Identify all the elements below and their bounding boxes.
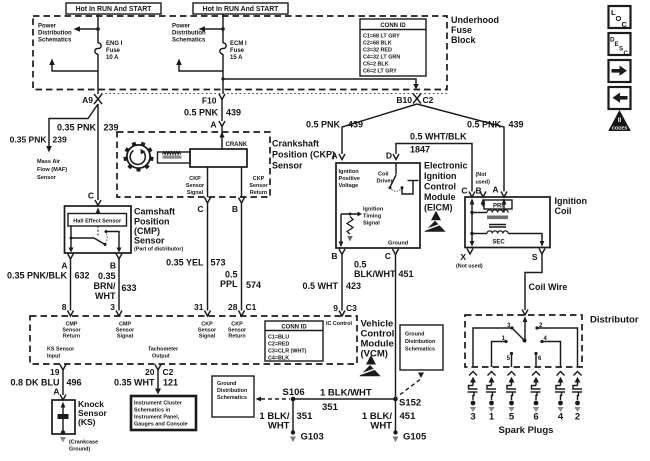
wire: hot feed to ENG I fuse bbox=[97, 14, 99, 43]
spark plug 2 bbox=[572, 372, 582, 423]
svg-text:Power: Power bbox=[38, 24, 57, 30]
pin 31 (VCM) bbox=[194, 302, 210, 316]
wire 0.5 BLK/WHT 451 (EICM C to S152) bbox=[395, 255, 397, 398]
ground G105 bbox=[393, 430, 427, 442]
coil wire (S to distributor) bbox=[525, 254, 542, 310]
pin 8 (VCM) bbox=[62, 302, 74, 316]
label: CKP Sensor Signal (VCM) bbox=[198, 322, 217, 340]
wire 0.35 BRN/WHT 633 (CMP B to VCM pin 3) bbox=[118, 259, 120, 311]
wire 0.5 PNK 439 (B10 to ignition coil A) bbox=[417, 104, 504, 192]
svg-text:Tachometer: Tachometer bbox=[148, 347, 179, 353]
svg-text:6: 6 bbox=[533, 412, 538, 423]
svg-text:573: 573 bbox=[211, 258, 226, 268]
svg-text:1847: 1847 bbox=[410, 145, 430, 155]
ESD logo (EICM) bbox=[424, 211, 445, 232]
EICM internal ground rail bbox=[340, 214, 342, 246]
svg-text:CONN ID: CONN ID bbox=[380, 23, 406, 29]
pickup coil bbox=[158, 152, 191, 164]
svg-text:451: 451 bbox=[399, 269, 414, 279]
distributor cap contact 3 bbox=[473, 323, 514, 367]
svg-text:15 A: 15 A bbox=[230, 55, 243, 61]
fuse ENG I 10A symbol bbox=[95, 43, 101, 54]
svg-text:Block: Block bbox=[451, 35, 477, 45]
svg-text:KS Sensor: KS Sensor bbox=[47, 347, 75, 353]
svg-text:II: II bbox=[618, 118, 622, 124]
terminal C (CMP sensor) bbox=[88, 191, 101, 206]
hall effect sensor box bbox=[68, 214, 127, 227]
svg-text:0.35 YEL: 0.35 YEL bbox=[166, 258, 204, 268]
crankshaft position sensor (CKP) dashed box bbox=[117, 132, 270, 197]
ground distribution schematics box (right) bbox=[400, 325, 443, 370]
svg-text:Mass Air: Mass Air bbox=[37, 159, 61, 165]
label: CMP Sensor Signal (VCM) bbox=[116, 322, 135, 340]
svg-text:C: C bbox=[622, 20, 628, 29]
primary winding PRI bbox=[472, 210, 508, 213]
svg-text:Voltage: Voltage bbox=[339, 183, 359, 189]
label: CKP Sensor Return (inside box) bbox=[249, 176, 268, 196]
svg-text:C2=68 BLK: C2=68 BLK bbox=[363, 41, 392, 47]
svg-text:Distribution: Distribution bbox=[172, 31, 206, 37]
svg-text:351: 351 bbox=[297, 411, 314, 422]
branch wire with up arrow (other circuits, left) bbox=[49, 59, 98, 72]
svg-text:633: 633 bbox=[122, 283, 137, 293]
svg-text:Ignition: Ignition bbox=[363, 207, 384, 213]
spark plug 6 bbox=[531, 372, 541, 423]
svg-text:121: 121 bbox=[163, 378, 178, 388]
ESD logo (VCM) bbox=[359, 355, 380, 376]
svg-text:239: 239 bbox=[104, 123, 119, 133]
distributor cap contact 1 bbox=[492, 336, 508, 367]
svg-text:1 BLK/WHT: 1 BLK/WHT bbox=[320, 388, 372, 399]
svg-text:Schematics: Schematics bbox=[38, 38, 72, 44]
arrow into CMP from terminal C bbox=[96, 207, 101, 213]
node F10 bbox=[202, 94, 225, 106]
spark plug 5 bbox=[506, 372, 516, 423]
svg-text:C: C bbox=[197, 204, 203, 214]
dashed link to S106 with arrow bbox=[256, 397, 291, 402]
svg-text:C1=BLU: C1=BLU bbox=[268, 335, 289, 341]
electronic ignition control module (EICM) box bbox=[336, 163, 420, 248]
wire 0.5 PPL 574 (CKP B to VCM pin 28) bbox=[241, 203, 243, 311]
svg-text:B: B bbox=[476, 186, 482, 196]
svg-text:WHT: WHT bbox=[268, 421, 290, 432]
svg-text:PPL: PPL bbox=[220, 279, 238, 289]
svg-text:Ignition: Ignition bbox=[339, 169, 360, 175]
sidebar icon: next arrow button bbox=[609, 60, 631, 82]
coil A internal lead bbox=[502, 198, 507, 212]
svg-text:(Crankcase: (Crankcase bbox=[69, 440, 98, 446]
svg-text:A: A bbox=[61, 261, 67, 271]
wire 1 BLK/WHT 351 (S106 to S152) bbox=[293, 398, 396, 400]
terminal B (CKP return) bbox=[232, 198, 245, 215]
arrow: power distribution schematics (right) bbox=[199, 26, 224, 32]
svg-text:A: A bbox=[53, 387, 59, 397]
svg-text:Control: Control bbox=[424, 182, 456, 192]
svg-text:C3: C3 bbox=[346, 303, 357, 313]
svg-text:Coil: Coil bbox=[378, 172, 389, 178]
svg-text:S: S bbox=[532, 252, 538, 262]
svg-text:Sensor: Sensor bbox=[37, 175, 57, 181]
svg-text:439: 439 bbox=[509, 120, 524, 130]
ground G103 bbox=[290, 430, 324, 442]
svg-text:C: C bbox=[461, 186, 467, 196]
sidebar icon: DESC button bbox=[609, 33, 631, 57]
sidebar icon: LOC button bbox=[609, 6, 631, 29]
svg-text:Signal: Signal bbox=[199, 334, 216, 340]
terminal C (EICM) bbox=[385, 249, 399, 261]
terminal A (CMP) bbox=[61, 254, 73, 271]
svg-text:BRN/: BRN/ bbox=[94, 281, 116, 291]
wire 1 BLK/WHT 451 (S152 to G105) bbox=[395, 401, 397, 431]
knock sensor element bbox=[58, 402, 69, 435]
label: Vehicle Control Module (VCM) bbox=[361, 319, 395, 360]
svg-text:0.5 PNK: 0.5 PNK bbox=[306, 120, 341, 130]
terminal C (CKP signal) bbox=[197, 198, 210, 215]
arrow: power distribution schematics (left) bbox=[74, 26, 99, 32]
label: CKP Sensor Signal (inside box) bbox=[186, 176, 205, 196]
wire 0.35 PNK 239 (A9 down to CMP C) bbox=[97, 104, 99, 200]
svg-text:Distribution: Distribution bbox=[38, 31, 72, 37]
svg-text:31: 31 bbox=[194, 302, 204, 312]
coil C internal rail bbox=[470, 198, 475, 246]
spark plug 4 bbox=[555, 372, 565, 423]
svg-text:(VCM): (VCM) bbox=[361, 349, 388, 360]
svg-text:Fuse: Fuse bbox=[106, 48, 121, 54]
terminal B (EICM) bbox=[331, 249, 345, 261]
svg-text:Electronic: Electronic bbox=[424, 161, 468, 171]
svg-text:Position (CKP): Position (CKP) bbox=[272, 150, 335, 160]
svg-text:Crankshaft: Crankshaft bbox=[272, 139, 319, 149]
wire 0.5 WHT 423 (EICM B to VCM pin 9) bbox=[341, 255, 343, 311]
svg-text:C4=32 LT GRN: C4=32 LT GRN bbox=[363, 55, 400, 61]
svg-text:0.35 PNK: 0.35 PNK bbox=[57, 123, 97, 133]
svg-text:C6=2 LT GRY: C6=2 LT GRY bbox=[363, 69, 397, 75]
connector table CONN ID (VCM) bbox=[265, 321, 323, 362]
terminal A (ignition coil) bbox=[492, 185, 507, 198]
svg-text:Schematics: Schematics bbox=[405, 347, 435, 353]
pin 19 (VCM) bbox=[50, 365, 66, 378]
label: Ignition Positive Voltage bbox=[339, 169, 360, 189]
transformer core bbox=[487, 216, 508, 228]
svg-text:Hot In RUN And START: Hot In RUN And START bbox=[203, 6, 280, 13]
distributor cap contact 4 bbox=[540, 336, 560, 367]
terminal X (ignition coil, not used) bbox=[456, 249, 483, 270]
branch wire with up arrow (other circuits, right) bbox=[176, 59, 223, 72]
svg-text:F10: F10 bbox=[202, 96, 217, 106]
pin 28 / C1 (VCM) bbox=[228, 302, 257, 316]
label: Ignition Coil bbox=[555, 196, 588, 216]
svg-text:0.5 WHT: 0.5 WHT bbox=[302, 281, 338, 291]
svg-text:B10: B10 bbox=[396, 95, 412, 105]
svg-text:A: A bbox=[492, 185, 498, 195]
svg-text:BLK/WHT: BLK/WHT bbox=[354, 269, 396, 279]
svg-text:Timing: Timing bbox=[363, 214, 382, 220]
svg-text:Ignition: Ignition bbox=[555, 196, 588, 206]
svg-text:S106: S106 bbox=[283, 387, 305, 398]
underhood fuse block (dashed outline) bbox=[33, 16, 447, 90]
svg-text:Coil: Coil bbox=[555, 206, 572, 216]
label: (Not used) coil B bbox=[476, 172, 491, 186]
svg-text:C3=32 RED: C3=32 RED bbox=[363, 48, 392, 54]
connector tag: Hot In RUN And START (right) bbox=[193, 3, 288, 14]
svg-text:(KS): (KS) bbox=[78, 417, 96, 427]
svg-text:Power: Power bbox=[172, 24, 191, 30]
primary winding label box PRI bbox=[484, 200, 512, 209]
svg-text:351: 351 bbox=[322, 402, 339, 413]
crankcase ground symbol bbox=[60, 437, 66, 443]
svg-text:C2: C2 bbox=[423, 95, 434, 105]
svg-text:2: 2 bbox=[575, 412, 580, 423]
splice S152 bbox=[393, 397, 421, 409]
svg-text:Instrument Panel,: Instrument Panel, bbox=[134, 415, 180, 421]
svg-text:C2: C2 bbox=[163, 367, 174, 377]
svg-text:0.8 DK BLU: 0.8 DK BLU bbox=[10, 378, 59, 388]
svg-text:Sensor: Sensor bbox=[249, 183, 268, 189]
rotor (distributor) bbox=[513, 329, 527, 343]
terminal S (ignition coil) bbox=[532, 249, 545, 263]
svg-text:Signal: Signal bbox=[363, 221, 380, 227]
svg-text:(CMP): (CMP) bbox=[134, 226, 160, 236]
svg-text:19: 19 bbox=[50, 367, 60, 377]
svg-text:0.5 PNK: 0.5 PNK bbox=[467, 120, 502, 130]
fuse ECM I 15A symbol bbox=[220, 43, 226, 54]
svg-text:0.35 WHT: 0.35 WHT bbox=[114, 378, 155, 388]
pin 9 / C3 (VCM) bbox=[333, 303, 357, 316]
ignition timing signal arrow and resistor bbox=[341, 212, 362, 242]
label: KS Sensor Input (VCM) bbox=[47, 347, 75, 360]
pin 3 (VCM) bbox=[110, 302, 122, 316]
svg-text:0.5 WHT/BLK: 0.5 WHT/BLK bbox=[410, 132, 467, 142]
svg-text:C2=RED: C2=RED bbox=[268, 342, 290, 348]
sidebar icon: delta codes triangle bbox=[608, 110, 631, 131]
label: Coil Driver bbox=[377, 172, 394, 185]
svg-text:C: C bbox=[88, 191, 94, 201]
svg-text:0.35 PNK: 0.35 PNK bbox=[10, 135, 48, 145]
svg-text:0.5: 0.5 bbox=[225, 270, 238, 280]
svg-text:WHT: WHT bbox=[95, 291, 116, 301]
sidebar icon: previous arrow button bbox=[609, 87, 631, 109]
svg-text:SEC: SEC bbox=[492, 240, 505, 246]
svg-text:451: 451 bbox=[400, 411, 417, 422]
coil driver switch (EICM) bbox=[389, 163, 419, 194]
svg-text:CKP: CKP bbox=[253, 176, 265, 182]
svg-text:20: 20 bbox=[145, 367, 155, 377]
dashed link to S152 with arrow bbox=[398, 373, 425, 397]
reluctor wheel (gear) bbox=[124, 142, 154, 171]
svg-text:C1: C1 bbox=[246, 302, 257, 312]
svg-text:423: 423 bbox=[346, 281, 361, 291]
svg-text:CKP: CKP bbox=[189, 176, 201, 182]
wire into CKP sensor with arrow bbox=[219, 127, 224, 149]
label: Camshaft Position (CMP) Sensor (Part of distributor) bbox=[134, 207, 183, 253]
svg-text:Schematics: Schematics bbox=[172, 38, 206, 44]
svg-text:8: 8 bbox=[62, 302, 67, 312]
svg-text:0.35: 0.35 bbox=[98, 271, 116, 281]
svg-text:5: 5 bbox=[509, 412, 515, 423]
svg-text:632: 632 bbox=[75, 271, 90, 281]
svg-text:Distribution: Distribution bbox=[217, 388, 247, 394]
svg-text:Sensor: Sensor bbox=[186, 183, 205, 189]
svg-text:A: A bbox=[331, 151, 337, 161]
knock sensor (KS) box bbox=[52, 400, 75, 434]
instrument cluster schematics box bbox=[131, 396, 196, 430]
CMP internal switch bbox=[69, 226, 122, 253]
spark plug 3 bbox=[468, 372, 478, 423]
svg-text:B: B bbox=[331, 251, 337, 261]
CKP sensor body bbox=[190, 149, 247, 167]
svg-text:Sensor: Sensor bbox=[134, 236, 165, 246]
svg-text:0.5: 0.5 bbox=[354, 260, 367, 270]
svg-text:Camshaft: Camshaft bbox=[134, 207, 175, 217]
terminal B (ignition coil, not used) bbox=[476, 186, 487, 198]
label: Knock Sensor (KS) bbox=[78, 399, 108, 427]
svg-text:Module: Module bbox=[424, 192, 456, 202]
label: Power Distribution Schematics (left) bbox=[38, 24, 72, 44]
ignition coil box bbox=[465, 197, 550, 248]
svg-text:Schematics in: Schematics in bbox=[134, 408, 170, 414]
svg-text:CRANK: CRANK bbox=[226, 142, 248, 148]
ground distribution schematics box (left) bbox=[212, 376, 254, 417]
svg-text:A9: A9 bbox=[82, 95, 93, 105]
distributor cap contact 6 bbox=[534, 352, 542, 367]
svg-text:Fuse: Fuse bbox=[230, 48, 245, 54]
svg-text:Ground: Ground bbox=[217, 381, 236, 387]
svg-text:Position: Position bbox=[134, 217, 170, 227]
wire 0.35 YEL 573 (CKP C to VCM pin 31) bbox=[207, 203, 209, 311]
svg-text:Signal: Signal bbox=[117, 334, 134, 340]
distributor dashed box bbox=[465, 315, 582, 367]
label: ECM I Fuse 15 A bbox=[230, 41, 247, 61]
svg-text:G103: G103 bbox=[301, 432, 324, 443]
svg-text:B: B bbox=[110, 261, 116, 271]
terminal A (CKP) bbox=[210, 120, 225, 130]
svg-text:C1=68 LT GRY: C1=68 LT GRY bbox=[363, 34, 400, 40]
svg-text:Flow (MAF): Flow (MAF) bbox=[37, 167, 67, 173]
label: Power Distribution Schematics (right) bbox=[172, 24, 206, 44]
label: ENG I Fuse 10 A bbox=[106, 41, 123, 61]
svg-text:(Not: (Not bbox=[476, 172, 487, 178]
svg-text:(Part of distributor): (Part of distributor) bbox=[134, 247, 183, 253]
svg-text:Positive: Positive bbox=[339, 176, 360, 182]
svg-text:C4=BLK: C4=BLK bbox=[268, 356, 289, 362]
coil wire entry terminal (distributor) bbox=[522, 310, 528, 340]
secondary winding SEC bbox=[472, 231, 544, 247]
terminal B (CMP) bbox=[110, 254, 122, 271]
svg-text:10 A: 10 A bbox=[106, 55, 119, 61]
svg-text:Sensor: Sensor bbox=[272, 161, 303, 171]
dotted connector separator line bbox=[101, 93, 448, 95]
wire 0.35 WHT 121 (pin 20 to instrument cluster) bbox=[155, 370, 161, 395]
svg-text:Hall Effect Sensor: Hall Effect Sensor bbox=[73, 218, 122, 224]
coil B stub (not used) bbox=[481, 198, 486, 206]
label: Electronic Ignition Control Module (EICM) bbox=[424, 161, 468, 213]
svg-text:CODES: CODES bbox=[612, 125, 628, 130]
svg-text:X: X bbox=[460, 252, 466, 262]
svg-text:Schematics: Schematics bbox=[217, 395, 247, 401]
svg-text:574: 574 bbox=[246, 280, 261, 290]
svg-text:Signal: Signal bbox=[187, 190, 204, 196]
svg-text:C: C bbox=[624, 50, 629, 57]
wire: ENG I fuse output to A9 bbox=[97, 54, 99, 94]
label: (Crankcase Ground) bbox=[69, 440, 98, 453]
node B10 / C2 bbox=[396, 94, 433, 106]
spark plug 1 bbox=[486, 372, 496, 423]
svg-text:439: 439 bbox=[226, 108, 241, 118]
junction on ECM I feed bbox=[221, 27, 225, 31]
svg-text:3: 3 bbox=[470, 412, 475, 423]
svg-text:Distributor: Distributor bbox=[590, 315, 639, 326]
camshaft position sensor (CMP) box bbox=[65, 206, 132, 253]
svg-text:Instrument Cluster: Instrument Cluster bbox=[134, 401, 183, 407]
pin 20 / C2 (VCM) bbox=[145, 365, 174, 378]
vehicle control module (VCM) dashed box bbox=[30, 316, 357, 364]
terminal D (EICM) bbox=[386, 151, 399, 161]
svg-text:Ground: Ground bbox=[388, 241, 409, 247]
svg-text:Underhood: Underhood bbox=[451, 15, 499, 25]
svg-text:CONN ID: CONN ID bbox=[281, 325, 307, 331]
terminal C (ignition coil) bbox=[461, 186, 475, 198]
branch wire 0.35 PNK 239 to MAF sensor bbox=[46, 104, 98, 153]
node A9 bbox=[82, 94, 102, 105]
svg-text:D: D bbox=[386, 151, 392, 161]
svg-text:28: 28 bbox=[228, 302, 238, 312]
svg-text:A: A bbox=[210, 120, 216, 130]
wire: branch to B10 connector bbox=[221, 77, 418, 89]
svg-text:B: B bbox=[232, 204, 238, 214]
svg-text:Hot In RUN And START: Hot In RUN And START bbox=[76, 6, 153, 13]
svg-text:4: 4 bbox=[558, 412, 564, 423]
svg-text:S152: S152 bbox=[399, 398, 421, 409]
distributor cap contact 2 bbox=[535, 323, 577, 367]
svg-text:Gauges and Console: Gauges and Console bbox=[134, 422, 188, 428]
connector tag: Hot In RUN And START (left) bbox=[66, 3, 161, 14]
label: CMP Sensor Return (VCM) bbox=[62, 322, 81, 340]
CKP internal wires to terminals bbox=[207, 167, 209, 197]
svg-text:(EICM): (EICM) bbox=[424, 203, 453, 213]
svg-text:Ground): Ground) bbox=[69, 447, 90, 453]
svg-text:3: 3 bbox=[110, 302, 115, 312]
svg-text:C5=2 BLK: C5=2 BLK bbox=[363, 62, 389, 68]
terminal A (EICM) bbox=[331, 151, 345, 161]
wire 0.35 PNK/BLK 632 (CMP A to VCM pin 8) bbox=[70, 259, 72, 311]
svg-text:239: 239 bbox=[53, 135, 67, 145]
svg-text:ENG I: ENG I bbox=[106, 41, 123, 47]
wire 0.5 WHT/BLK 1847 (EICM D to coil C) bbox=[396, 144, 472, 192]
svg-text:ECM I: ECM I bbox=[230, 41, 247, 47]
wire: ECM I fuse output to F10 bbox=[222, 54, 224, 94]
label: Mass Air Flow (MAF) Sensor bbox=[37, 159, 67, 181]
svg-text:9: 9 bbox=[333, 303, 338, 313]
svg-text:G105: G105 bbox=[403, 432, 427, 443]
svg-text:WHT: WHT bbox=[370, 421, 392, 432]
wire 0.8 DK BLU 496 (pin 19 to knock sensor) bbox=[62, 370, 64, 395]
svg-text:Distribution: Distribution bbox=[405, 339, 435, 345]
wire: hot feed to ECM I fuse bbox=[222, 14, 224, 43]
svg-text:(Not used): (Not used) bbox=[456, 264, 483, 270]
svg-text:Return: Return bbox=[63, 334, 80, 340]
splice S106 bbox=[283, 387, 305, 401]
svg-text:Return: Return bbox=[228, 334, 245, 340]
svg-text:Ignition: Ignition bbox=[424, 171, 457, 181]
svg-text:IC Control: IC Control bbox=[326, 321, 353, 327]
junction on ENG I feed bbox=[96, 27, 100, 31]
svg-text:Return: Return bbox=[250, 190, 267, 196]
wire 1 BLK/WHT 351 (S106 to G103) bbox=[292, 401, 294, 431]
label: Underhood Fuse Block bbox=[451, 15, 499, 45]
svg-text:Coil Wire: Coil Wire bbox=[529, 282, 568, 292]
svg-text:0.5 PNK: 0.5 PNK bbox=[184, 108, 219, 118]
svg-text:496: 496 bbox=[67, 378, 82, 388]
